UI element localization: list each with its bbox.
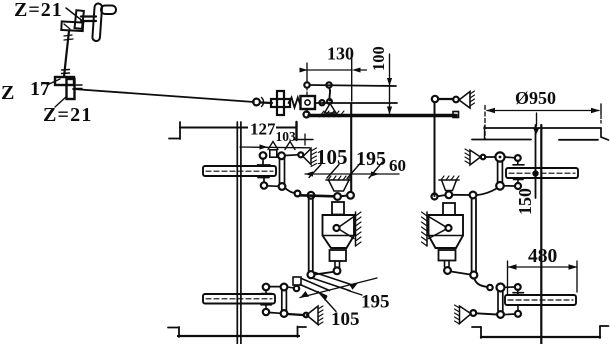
steering shaft vertical xyxy=(66,31,69,58)
joint drag link top xyxy=(347,192,354,199)
label Z=21 top xyxy=(14,0,63,21)
wire shaft top line xyxy=(310,85,396,86)
svg-text:195: 195 xyxy=(361,292,390,313)
wire xyxy=(438,98,453,100)
node xyxy=(453,97,459,103)
support triangle axle2 right xyxy=(460,306,472,324)
long steering rod xyxy=(73,89,254,102)
wheel3 bottom arm xyxy=(514,179,524,181)
joint xyxy=(497,311,504,318)
ext line right of 130 / drag link upper xyxy=(351,57,353,101)
s-wire to chain y195 xyxy=(478,189,497,196)
joint xyxy=(308,192,315,199)
dim 100 line xyxy=(389,54,391,114)
leader slash 3 xyxy=(347,164,360,179)
label 195 lower xyxy=(361,292,390,313)
dim ext tick 127 xyxy=(295,122,297,140)
right actuator body xyxy=(429,215,464,248)
main cross shaft thick xyxy=(309,114,456,117)
svg-text:195: 195 xyxy=(356,148,386,170)
left actuator neck xyxy=(332,202,344,215)
wheel front-left xyxy=(203,166,276,176)
wire to rod bracket xyxy=(287,287,294,288)
wire to flange xyxy=(261,101,272,104)
wire xyxy=(267,185,279,188)
frame line left upper xyxy=(180,126,296,128)
svg-text:100: 100 xyxy=(369,46,388,71)
dim arrow at 147 xyxy=(240,146,310,149)
svg-text:17: 17 xyxy=(30,78,50,100)
drag link vertical (195) xyxy=(350,103,352,192)
joint xyxy=(281,284,288,291)
joint actuator top xyxy=(334,193,341,200)
frame line right second xyxy=(472,139,531,141)
wire to support xyxy=(288,314,304,315)
label 127 xyxy=(248,120,276,139)
pivot circle in body xyxy=(334,225,340,231)
joint xyxy=(279,183,286,190)
relay joint xyxy=(497,284,505,292)
frame bracket left xyxy=(179,122,181,139)
dim O950 line xyxy=(487,110,599,112)
wire xyxy=(504,313,515,316)
label 105 upper xyxy=(316,145,348,169)
relay vertical double xyxy=(497,292,499,312)
wire to support xyxy=(476,313,497,314)
joint xyxy=(298,152,303,157)
wire xyxy=(285,154,298,157)
dashed axis to node xyxy=(306,88,308,97)
wire to wheel arm top xyxy=(505,156,515,159)
flexible coupling zigzag xyxy=(289,98,301,108)
wheel rear-left xyxy=(203,294,275,304)
joint chain right mid xyxy=(432,194,438,200)
support triangle axle1 right xyxy=(470,150,481,165)
caret support 2 xyxy=(285,142,295,150)
wire top to wheel4 xyxy=(505,286,516,288)
joint drop xyxy=(327,99,332,104)
wheel rear-right xyxy=(505,295,576,305)
joint drag link bottom xyxy=(308,271,315,278)
label 150 rotated xyxy=(515,188,535,215)
joint on pitman rod xyxy=(319,100,324,105)
wheel4 bottom arm xyxy=(517,305,519,311)
small arrow on centerline xyxy=(533,128,540,136)
stem xyxy=(444,261,446,268)
spline marks on shaft xyxy=(64,35,72,36)
label 103 xyxy=(276,129,297,144)
bottom frame right xyxy=(481,336,600,338)
joint xyxy=(281,310,288,317)
wheel front-right xyxy=(506,168,578,178)
joint xyxy=(261,182,267,188)
svg-text:Z=21: Z=21 xyxy=(14,0,63,21)
support triangle lower-left xyxy=(307,306,319,325)
s-wire drag to lower relay xyxy=(475,279,488,287)
caret support 1 xyxy=(268,142,278,150)
crank handle arm xyxy=(92,3,102,41)
svg-text:103: 103 xyxy=(276,129,297,144)
right drag link vertical double xyxy=(471,199,473,272)
dim 100 text rotated xyxy=(369,46,388,71)
wheel centerline double right xyxy=(535,125,537,198)
wire xyxy=(341,195,347,198)
bevel gear Z=17 / Z=21 (lower) xyxy=(55,77,82,99)
wire xyxy=(269,312,280,315)
universal joint cross flange xyxy=(277,91,284,115)
svg-text:105: 105 xyxy=(331,309,360,330)
wire actuator to drag xyxy=(315,272,334,275)
joint xyxy=(496,182,504,190)
joint xyxy=(278,152,285,159)
crank shaft double line xyxy=(81,15,96,17)
svg-text:127: 127 xyxy=(250,120,276,139)
relay link vertical double right xyxy=(497,162,499,183)
dim 103 line xyxy=(294,139,313,141)
joint at support xyxy=(304,313,309,318)
leader slash 1 xyxy=(309,165,321,178)
anchor above left actuator xyxy=(326,179,351,181)
s-link to lower row xyxy=(286,189,295,194)
joint xyxy=(260,152,267,159)
frame line right upper xyxy=(484,127,601,129)
steering gearbox xyxy=(301,96,316,109)
support triangle left row xyxy=(303,149,311,165)
label 105 lower xyxy=(331,309,360,330)
joint bottom right drag xyxy=(470,272,477,279)
vertical link from node down xyxy=(434,102,436,196)
knuckle bottom of wheel2 xyxy=(261,304,272,306)
bevel gear Z=21 (upper) xyxy=(61,10,84,31)
label 60 xyxy=(389,156,406,175)
leader 17 xyxy=(47,79,60,85)
left wheel axis xyxy=(236,122,238,344)
svg-text:480: 480 xyxy=(528,246,557,267)
hatched wall left of right actuator xyxy=(426,212,428,246)
ext line right with hook xyxy=(600,104,602,115)
ball joint xyxy=(253,99,260,106)
joint below right actuator xyxy=(444,267,451,274)
dim 480 line xyxy=(508,266,577,268)
label Z=21 lower xyxy=(43,104,93,126)
leader 195 lower xyxy=(348,291,362,296)
relay vertical double xyxy=(281,291,283,311)
ext line left dashed xyxy=(484,106,486,140)
leader Z21 lower xyxy=(55,96,67,107)
node left end of axle xyxy=(304,112,310,118)
crank handle knob xyxy=(101,6,116,15)
dim 130 line xyxy=(300,69,352,71)
wire to right drag link xyxy=(451,272,470,275)
stem xyxy=(334,261,336,268)
leader 105 lower xyxy=(318,292,336,312)
svg-text:60: 60 xyxy=(389,156,406,175)
tie rod 195 (lower) xyxy=(315,273,353,286)
dim 480 text xyxy=(528,246,557,267)
support triangle on axle xyxy=(325,104,337,114)
node joint upper-left xyxy=(304,82,309,87)
anchor triangle right of shaft xyxy=(459,92,470,109)
hatched wall right of actuator xyxy=(355,212,357,246)
wire xyxy=(269,286,280,288)
label 195 upper xyxy=(356,148,386,170)
dim 100 arrows xyxy=(387,78,392,86)
svg-text:Ø950: Ø950 xyxy=(515,88,556,108)
pivot circle xyxy=(446,225,452,231)
dim line y174 xyxy=(305,173,399,175)
svg-text:Z=21: Z=21 xyxy=(43,104,93,126)
ext line left of 130 xyxy=(306,63,308,82)
knuckle arm top: stem and flange xyxy=(262,159,264,166)
tie rod 105 (lower) xyxy=(293,277,301,285)
svg-text:130: 130 xyxy=(327,44,354,64)
joint xyxy=(295,191,301,197)
center dot xyxy=(532,170,538,176)
drag link vertical double left xyxy=(308,199,310,272)
tie chain thick xyxy=(300,195,334,196)
anchor above right relay xyxy=(439,179,459,181)
right upper node xyxy=(432,96,438,102)
joint below actuator xyxy=(334,267,341,274)
bracket joint xyxy=(270,150,277,157)
svg-text:Z: Z xyxy=(1,82,14,104)
wire xyxy=(485,156,495,158)
leader slash 4 xyxy=(369,163,382,179)
right actuator lower block xyxy=(439,250,456,261)
left actuator lower block xyxy=(330,250,347,261)
knuckle arm bottom of wheel1 xyxy=(258,177,269,179)
pitman tie rod line xyxy=(315,102,397,104)
dim 130 text xyxy=(327,44,354,64)
leader slash 2 xyxy=(327,165,339,179)
knuckle top of wheel2 xyxy=(263,284,270,291)
ext lines 480 xyxy=(507,261,509,295)
dim O950 text xyxy=(515,88,556,108)
shaft end cap xyxy=(453,112,459,118)
wire wavy drop link xyxy=(329,88,330,101)
wires xyxy=(438,195,446,196)
leader to gear Z21 top xyxy=(66,8,84,22)
svg-text:150: 150 xyxy=(515,188,535,215)
tick ext xyxy=(484,126,486,139)
joint xyxy=(294,286,299,291)
wire xyxy=(504,185,515,187)
node joint upper-right xyxy=(326,82,331,87)
dim diagonal 195 xyxy=(300,278,377,298)
dim 130 arrows xyxy=(300,68,308,73)
right actuator neck xyxy=(443,203,455,215)
relay joint large xyxy=(495,152,504,161)
bottom frame left xyxy=(178,335,299,337)
left actuator body xyxy=(323,215,355,248)
relay link vertical double xyxy=(279,158,281,184)
label Z 17 xyxy=(1,78,50,104)
